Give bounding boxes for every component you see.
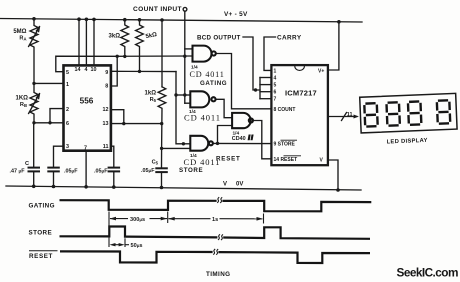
IC ICM7217 box — [271, 65, 328, 165]
resistor 3k — [121, 19, 129, 56]
wire node H to gate G1 input B — [117, 55, 192, 57]
svg-text:CD40: CD40 — [232, 136, 246, 142]
node pin14 rail — [77, 17, 81, 21]
gate G3 CD4011 RESET — [232, 113, 253, 128]
svg-text:BCD OUTPUT: BCD OUTPUT — [197, 35, 241, 42]
wire 556 pin4 to rail — [85, 19, 87, 65]
svg-text:C5: C5 — [152, 160, 159, 166]
gate G1 CD4011 GATING — [193, 46, 216, 62]
svg-text:STORE: STORE — [29, 229, 53, 236]
wire 556 pin5 elbow to node H — [56, 56, 117, 71]
node C5 0V — [160, 186, 164, 190]
svg-text:R5: R5 — [150, 97, 157, 103]
svg-text:7: 7 — [274, 97, 277, 103]
node pin10 rail — [92, 18, 96, 22]
resistor RB — [29, 83, 40, 122]
svg-text:ICM7217: ICM7217 — [285, 89, 317, 98]
resistor 5k — [136, 19, 144, 71]
node pin12-13 — [122, 122, 125, 125]
wire G4 output to ICM pin9 STORE — [213, 142, 271, 144]
svg-text:9 STORE: 9 STORE — [274, 142, 296, 148]
wire to G2 input B — [185, 102, 191, 104]
ICM pin labels — [274, 68, 325, 163]
svg-text:9: 9 — [105, 70, 108, 76]
break symbol GATING — [217, 197, 222, 203]
svg-text:7: 7 — [84, 146, 87, 152]
node R5C5 gate4 — [160, 147, 163, 150]
svg-text:3: 3 — [66, 144, 69, 150]
svg-text:.05μF: .05μF — [64, 168, 78, 174]
svg-text:5: 5 — [66, 70, 69, 76]
display digits 8888 — [364, 100, 450, 126]
svg-text:CD 4011: CD 4011 — [184, 157, 221, 167]
svg-text:TIMING: TIMING — [206, 271, 230, 278]
node BCD bus — [254, 88, 257, 91]
svg-text:CD 4011: CD 4011 — [190, 70, 225, 79]
BCD bus bracket pins 4-7 — [260, 78, 271, 99]
node V1 G2 inputA — [174, 93, 177, 96]
wire 556 pin9 to node V1 — [111, 70, 176, 72]
wire display bus /11 — [328, 113, 359, 121]
wire 556 pin8 elbow — [111, 56, 117, 86]
gate G2 CD4011 — [190, 91, 215, 107]
capacitor .05uF at pin3 — [48, 168, 59, 187]
dimension 50us — [110, 243, 130, 246]
node 3k on H wire — [123, 55, 126, 58]
svg-text:1s: 1s — [212, 217, 218, 223]
wire 556 pin12 elbow — [111, 110, 124, 124]
svg-text:.47 μF: .47 μF — [10, 168, 26, 174]
svg-text:2: 2 — [66, 107, 69, 113]
node G4 inputA — [182, 142, 185, 145]
node pin11 cap 0V — [112, 185, 116, 189]
break symbol STORE — [218, 234, 223, 240]
svg-text:14 RESET: 14 RESET — [274, 157, 298, 163]
node 3k rail — [123, 18, 127, 22]
svg-text:5: 5 — [274, 83, 277, 89]
svg-text:V: V — [223, 181, 227, 187]
tick 1s right end — [263, 214, 265, 224]
V+ rail — [0, 19, 362, 23]
wire ICM V+ to rail — [328, 22, 339, 70]
IC 556 box — [64, 65, 111, 150]
tick gating rise — [167, 212, 169, 224]
node RB bottom — [32, 121, 35, 124]
svg-text:4: 4 — [85, 67, 88, 73]
node pin2-pin6 — [48, 121, 51, 124]
wire 556 pin2 elbow — [50, 109, 64, 123]
svg-text:GATING: GATING — [29, 203, 55, 210]
dimension 1s — [168, 217, 263, 221]
wire 556 pin1 to RA/RB junction — [34, 82, 64, 84]
capacitor C .47uF — [29, 123, 40, 187]
LED display — [360, 93, 458, 146]
svg-text:1KΩ: 1KΩ — [16, 96, 29, 102]
dimension 300us — [110, 217, 168, 221]
wire C5 node to gate G4 input B — [162, 147, 191, 149]
wire 556 pin10 to rail — [93, 19, 95, 65]
svg-text:RB: RB — [20, 102, 27, 108]
wire count to G1 input A — [185, 48, 193, 50]
svg-text:3kΩ: 3kΩ — [109, 34, 121, 40]
svg-text:COUNT INPUT: COUNT INPUT — [133, 6, 182, 13]
overline ICM RESET — [284, 155, 302, 157]
wire RB bottom to 556 pin6 — [34, 122, 64, 124]
node 5k rail — [138, 18, 142, 22]
node pin3 cap 0V — [52, 185, 56, 189]
wire G4 output up to G3 input B — [218, 126, 233, 144]
svg-text:CD 4011: CD 4011 — [184, 113, 221, 123]
svg-text:RA: RA — [19, 36, 26, 42]
svg-text:50μs: 50μs — [131, 243, 143, 249]
node C cap 0V — [32, 185, 36, 189]
svg-text:11: 11 — [103, 144, 109, 150]
resistor R5 — [158, 20, 166, 169]
wire 556 pin7 to 0V — [85, 151, 87, 187]
wire ICM V- to 0V rail — [328, 160, 338, 190]
svg-text:V+: V+ — [318, 68, 324, 74]
svg-text:GATING: GATING — [200, 80, 227, 87]
wire G1 output to ICM pin8 COUNT — [216, 54, 272, 109]
RESET waveform — [60, 251, 213, 262]
svg-text:12: 12 — [103, 107, 109, 113]
display box — [360, 93, 457, 133]
svg-text:10: 10 — [91, 67, 97, 73]
STORE waveform — [60, 227, 218, 238]
node count net G2 inputA — [183, 93, 186, 96]
svg-text:0V: 0V — [236, 182, 243, 188]
svg-text:6: 6 — [66, 121, 69, 127]
node G4 output branch — [216, 142, 219, 145]
0V rail — [6, 186, 361, 190]
overline ICM STORE — [281, 139, 298, 141]
svg-text:300μs: 300μs — [130, 217, 145, 223]
wire 556 pin13 to R5/C5 node — [111, 123, 162, 125]
wire 556 pin14 to rail — [78, 19, 80, 65]
node pin13 R5C5 — [160, 122, 163, 125]
svg-text:V+ - 5V: V+ - 5V — [224, 11, 248, 18]
node count net on H wire — [183, 55, 186, 58]
svg-text:6: 6 — [274, 90, 277, 96]
svg-text:STORE: STORE — [179, 167, 203, 174]
GATING waveform — [60, 200, 217, 210]
gate G4 CD4011 STORE — [190, 136, 213, 151]
svg-text:14: 14 — [75, 67, 81, 73]
svg-text:11: 11 — [347, 112, 353, 118]
svg-text:8: 8 — [105, 83, 108, 89]
svg-text:8 COUNT: 8 COUNT — [274, 107, 296, 113]
556 pin numbers — [66, 67, 109, 152]
svg-text:CARRY: CARRY — [277, 35, 302, 42]
node RA-RB pin1 — [32, 82, 35, 85]
node pin8 on H wire — [116, 55, 119, 58]
wire CARRY label to ICM pin1 — [264, 37, 276, 70]
svg-text:4: 4 — [274, 76, 277, 82]
node ICM V- 0V — [336, 188, 340, 192]
node R5 rail — [160, 18, 164, 22]
svg-text:1kΩ: 1kΩ — [145, 91, 157, 97]
wire G3 output to ICM pin14 RESET — [253, 121, 271, 159]
node pin4 rail — [85, 18, 89, 22]
wire count input vertical — [184, 11, 186, 103]
wire BCD OUTPUT label to bus — [243, 37, 260, 90]
wire V1 vertical (556 pin9 net) — [176, 72, 183, 144]
wire G2 output to G3 input A — [216, 99, 233, 117]
node pin7 0V — [84, 185, 88, 189]
node ICM V+ rail — [337, 20, 341, 24]
svg-text:.05μF: .05μF — [94, 168, 108, 174]
node 5k on pin9 wire — [138, 70, 141, 73]
svg-text:RESET: RESET — [29, 253, 53, 260]
svg-text:556: 556 — [80, 97, 94, 106]
svg-text:5MΩ: 5MΩ — [13, 29, 26, 35]
svg-text:.05μF: .05μF — [141, 168, 155, 174]
svg-text:C: C — [25, 161, 29, 167]
tick gating fall / store rise — [108, 212, 110, 248]
wire G4 input A — [183, 143, 190, 145]
wire G2 input A — [176, 94, 190, 96]
break symbol RESET — [213, 249, 218, 255]
resistor RA — [29, 19, 40, 84]
svg-text:1: 1 — [274, 68, 277, 74]
svg-text:13: 13 — [103, 121, 109, 127]
capacitor .05uF at pin11 — [109, 168, 120, 187]
svg-text:1: 1 — [66, 82, 69, 88]
overline RESET (timing) — [29, 250, 58, 252]
wire 556 pin3 elbow — [54, 146, 64, 167]
wire 556 pin11 elbow — [111, 146, 114, 167]
svg-text:SeekIC.com: SeekIC.com — [397, 265, 458, 279]
count input terminal — [183, 7, 187, 11]
node RA top on rail — [32, 17, 36, 21]
tick store fall — [124, 238, 126, 247]
capacitor C5 — [156, 168, 167, 187]
